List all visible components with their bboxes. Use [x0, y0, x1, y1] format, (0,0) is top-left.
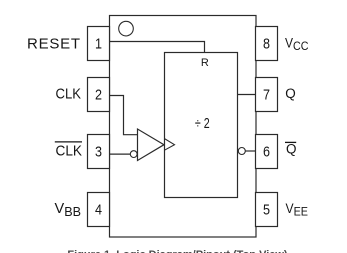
- svg-text:VCC: VCC: [285, 35, 309, 53]
- overline for Q-bar: [285, 141, 296, 143]
- svg-text:7: 7: [263, 86, 270, 103]
- pin 5 box: [256, 193, 278, 227]
- wire CLK pin2 to buffer input: [110, 96, 138, 135]
- svg-text:4: 4: [95, 201, 102, 218]
- wire RESET pin1 to R input: [110, 42, 205, 53]
- pin 1 box: [88, 27, 110, 61]
- clock edge wedge: [165, 139, 175, 151]
- pin 1 orientation marker circle: [119, 21, 134, 36]
- wire CLKB pin3 to input bubble: [110, 153, 131, 155]
- pin 7 box: [256, 78, 278, 112]
- pin 4 box: [88, 193, 110, 227]
- wire QB bubble to pin6: [245, 150, 255, 152]
- overline for CLK-bar: [55, 141, 82, 143]
- pin 6 box: [256, 135, 278, 169]
- svg-text:÷ 2: ÷ 2: [195, 115, 210, 132]
- svg-text:2: 2: [95, 86, 102, 103]
- svg-text:CLK: CLK: [56, 142, 83, 159]
- divide-by-2 flip-flop block: [165, 53, 238, 198]
- svg-text:CLK: CLK: [56, 86, 82, 103]
- svg-text:Figure 1. Logic Diagram/Pinout: Figure 1. Logic Diagram/Pinout (Top View…: [67, 249, 288, 253]
- IC package body U1: [110, 16, 257, 238]
- svg-text:1: 1: [95, 35, 102, 52]
- svg-text:VEE: VEE: [286, 201, 309, 219]
- svg-text:8: 8: [263, 35, 270, 52]
- input buffer triangle: [138, 129, 165, 161]
- svg-text:5: 5: [263, 201, 270, 218]
- wire Q block to pin7: [238, 94, 256, 96]
- svg-text:R: R: [201, 57, 209, 69]
- svg-text:RESET: RESET: [27, 35, 80, 52]
- pin 3 box: [88, 135, 110, 169]
- svg-text:3: 3: [95, 143, 102, 160]
- pin 8 box: [256, 27, 278, 61]
- svg-text:Q: Q: [286, 141, 297, 156]
- inversion bubble on QB output: [238, 148, 245, 155]
- svg-text:Q: Q: [285, 86, 296, 101]
- svg-text:VBB: VBB: [55, 200, 82, 219]
- pin 2 box: [88, 78, 110, 112]
- inversion bubble on CLKB input: [130, 151, 137, 158]
- svg-text:6: 6: [263, 143, 270, 160]
